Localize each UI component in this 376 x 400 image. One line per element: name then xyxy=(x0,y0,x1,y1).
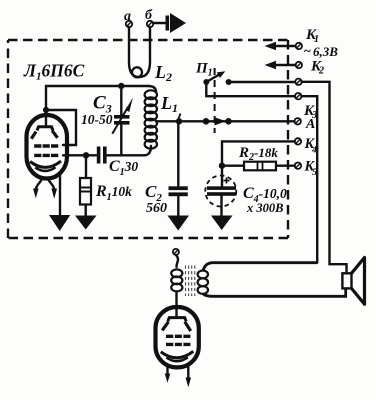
wire switch right to terminal xyxy=(229,81,295,83)
ground arrow from b xyxy=(153,13,186,33)
wire plug to primary xyxy=(176,255,178,267)
wire grid to tank xyxy=(107,146,151,155)
node connector right xyxy=(225,118,232,125)
wire K3 to speaker xyxy=(302,82,347,273)
terminal K5 xyxy=(295,163,301,169)
tube V1 cathode xyxy=(30,161,61,171)
capacitor C1 xyxy=(97,147,107,164)
tube V1 beam plates xyxy=(31,131,57,139)
ground C2 xyxy=(168,216,190,231)
tube V2 grid g1 xyxy=(166,343,190,346)
wire L1 tap to terminal A xyxy=(156,120,295,122)
wire node to R2 xyxy=(222,164,244,166)
terminal K4 xyxy=(295,138,301,144)
svg-text:10-50: 10-50 xyxy=(81,112,113,127)
coil L2 hairpin xyxy=(129,27,150,77)
node R2 C4 xyxy=(219,163,225,169)
capacitor C3 variable xyxy=(112,86,133,155)
resistor R1 xyxy=(80,158,91,216)
ground R1 xyxy=(75,216,97,230)
resistor R2 xyxy=(244,162,276,171)
tube V2 lead left xyxy=(165,366,171,383)
tube V1 grid g1 xyxy=(34,154,58,157)
terminal K3 xyxy=(295,79,301,85)
wire K3b to transformer xyxy=(301,96,317,263)
switch P1 xyxy=(203,71,231,85)
dashed chassis box xyxy=(8,40,288,238)
wire cathode lead xyxy=(59,172,61,216)
wire grid xyxy=(63,154,97,156)
tube V1 envelope xyxy=(27,115,68,179)
terminal K1 xyxy=(265,42,302,50)
svg-text:б: б xyxy=(145,8,153,23)
terminal A xyxy=(295,118,301,124)
tube V2 anode plate xyxy=(168,318,186,322)
svg-text:a: a xyxy=(124,9,131,24)
svg-text:А: А xyxy=(305,117,315,132)
node connector left xyxy=(203,118,210,125)
wire secondary top rail xyxy=(203,263,317,271)
speaker xyxy=(342,258,364,305)
svg-text:560: 560 xyxy=(146,201,167,216)
connector arrow xyxy=(215,117,227,125)
tube V1 filament lead left xyxy=(33,179,42,199)
tube V2 beam plates xyxy=(162,322,191,331)
svg-text:~: ~ xyxy=(304,43,312,58)
terminal K3b xyxy=(295,93,301,99)
ground cathode xyxy=(49,215,70,231)
node tap C2 xyxy=(176,118,182,124)
tube V1 filament lead right xyxy=(48,179,57,199)
node grid junction xyxy=(83,152,89,158)
svg-text:6,3В: 6,3В xyxy=(313,44,338,59)
inner dashed panel line xyxy=(214,68,216,133)
tube V1 anode plate xyxy=(37,127,53,131)
transformer primary xyxy=(171,269,182,291)
wire K4 to node xyxy=(222,141,295,163)
wire node down xyxy=(221,163,223,186)
terminal a xyxy=(124,9,132,27)
svg-text:Л16П6С: Л16П6С xyxy=(23,61,85,83)
wire screen tie step xyxy=(46,110,76,145)
tube V2 grid g2 xyxy=(166,335,190,338)
capacitor C2 xyxy=(169,121,188,216)
wire anode lead xyxy=(45,110,47,125)
node tank top xyxy=(118,83,124,89)
tick mark xyxy=(179,114,181,119)
capacitor C4 electrolytic xyxy=(205,176,236,217)
tube V1 grid g2 xyxy=(34,144,58,147)
coil L1 xyxy=(145,86,157,149)
wire anode top xyxy=(46,86,148,110)
wire primary to tube V2 xyxy=(175,292,177,308)
node anode riser xyxy=(43,107,49,113)
ground C4 xyxy=(211,216,233,231)
tube V2 lead right xyxy=(186,367,192,387)
tube V2 cathode xyxy=(161,351,194,361)
wire R2 to K5 xyxy=(276,164,295,166)
wire secondary bottom rail xyxy=(203,288,346,296)
terminal b xyxy=(145,8,153,27)
tube V2 anode lead xyxy=(175,307,177,316)
wire switch left to terminal xyxy=(206,82,295,96)
tube V2 envelope xyxy=(156,307,199,367)
terminal K2 xyxy=(265,61,302,69)
terminal transformer plug xyxy=(173,249,179,255)
transformer secondary xyxy=(198,271,208,294)
transformer core xyxy=(186,266,195,297)
svg-text:x 300В: x 300В xyxy=(246,201,283,215)
